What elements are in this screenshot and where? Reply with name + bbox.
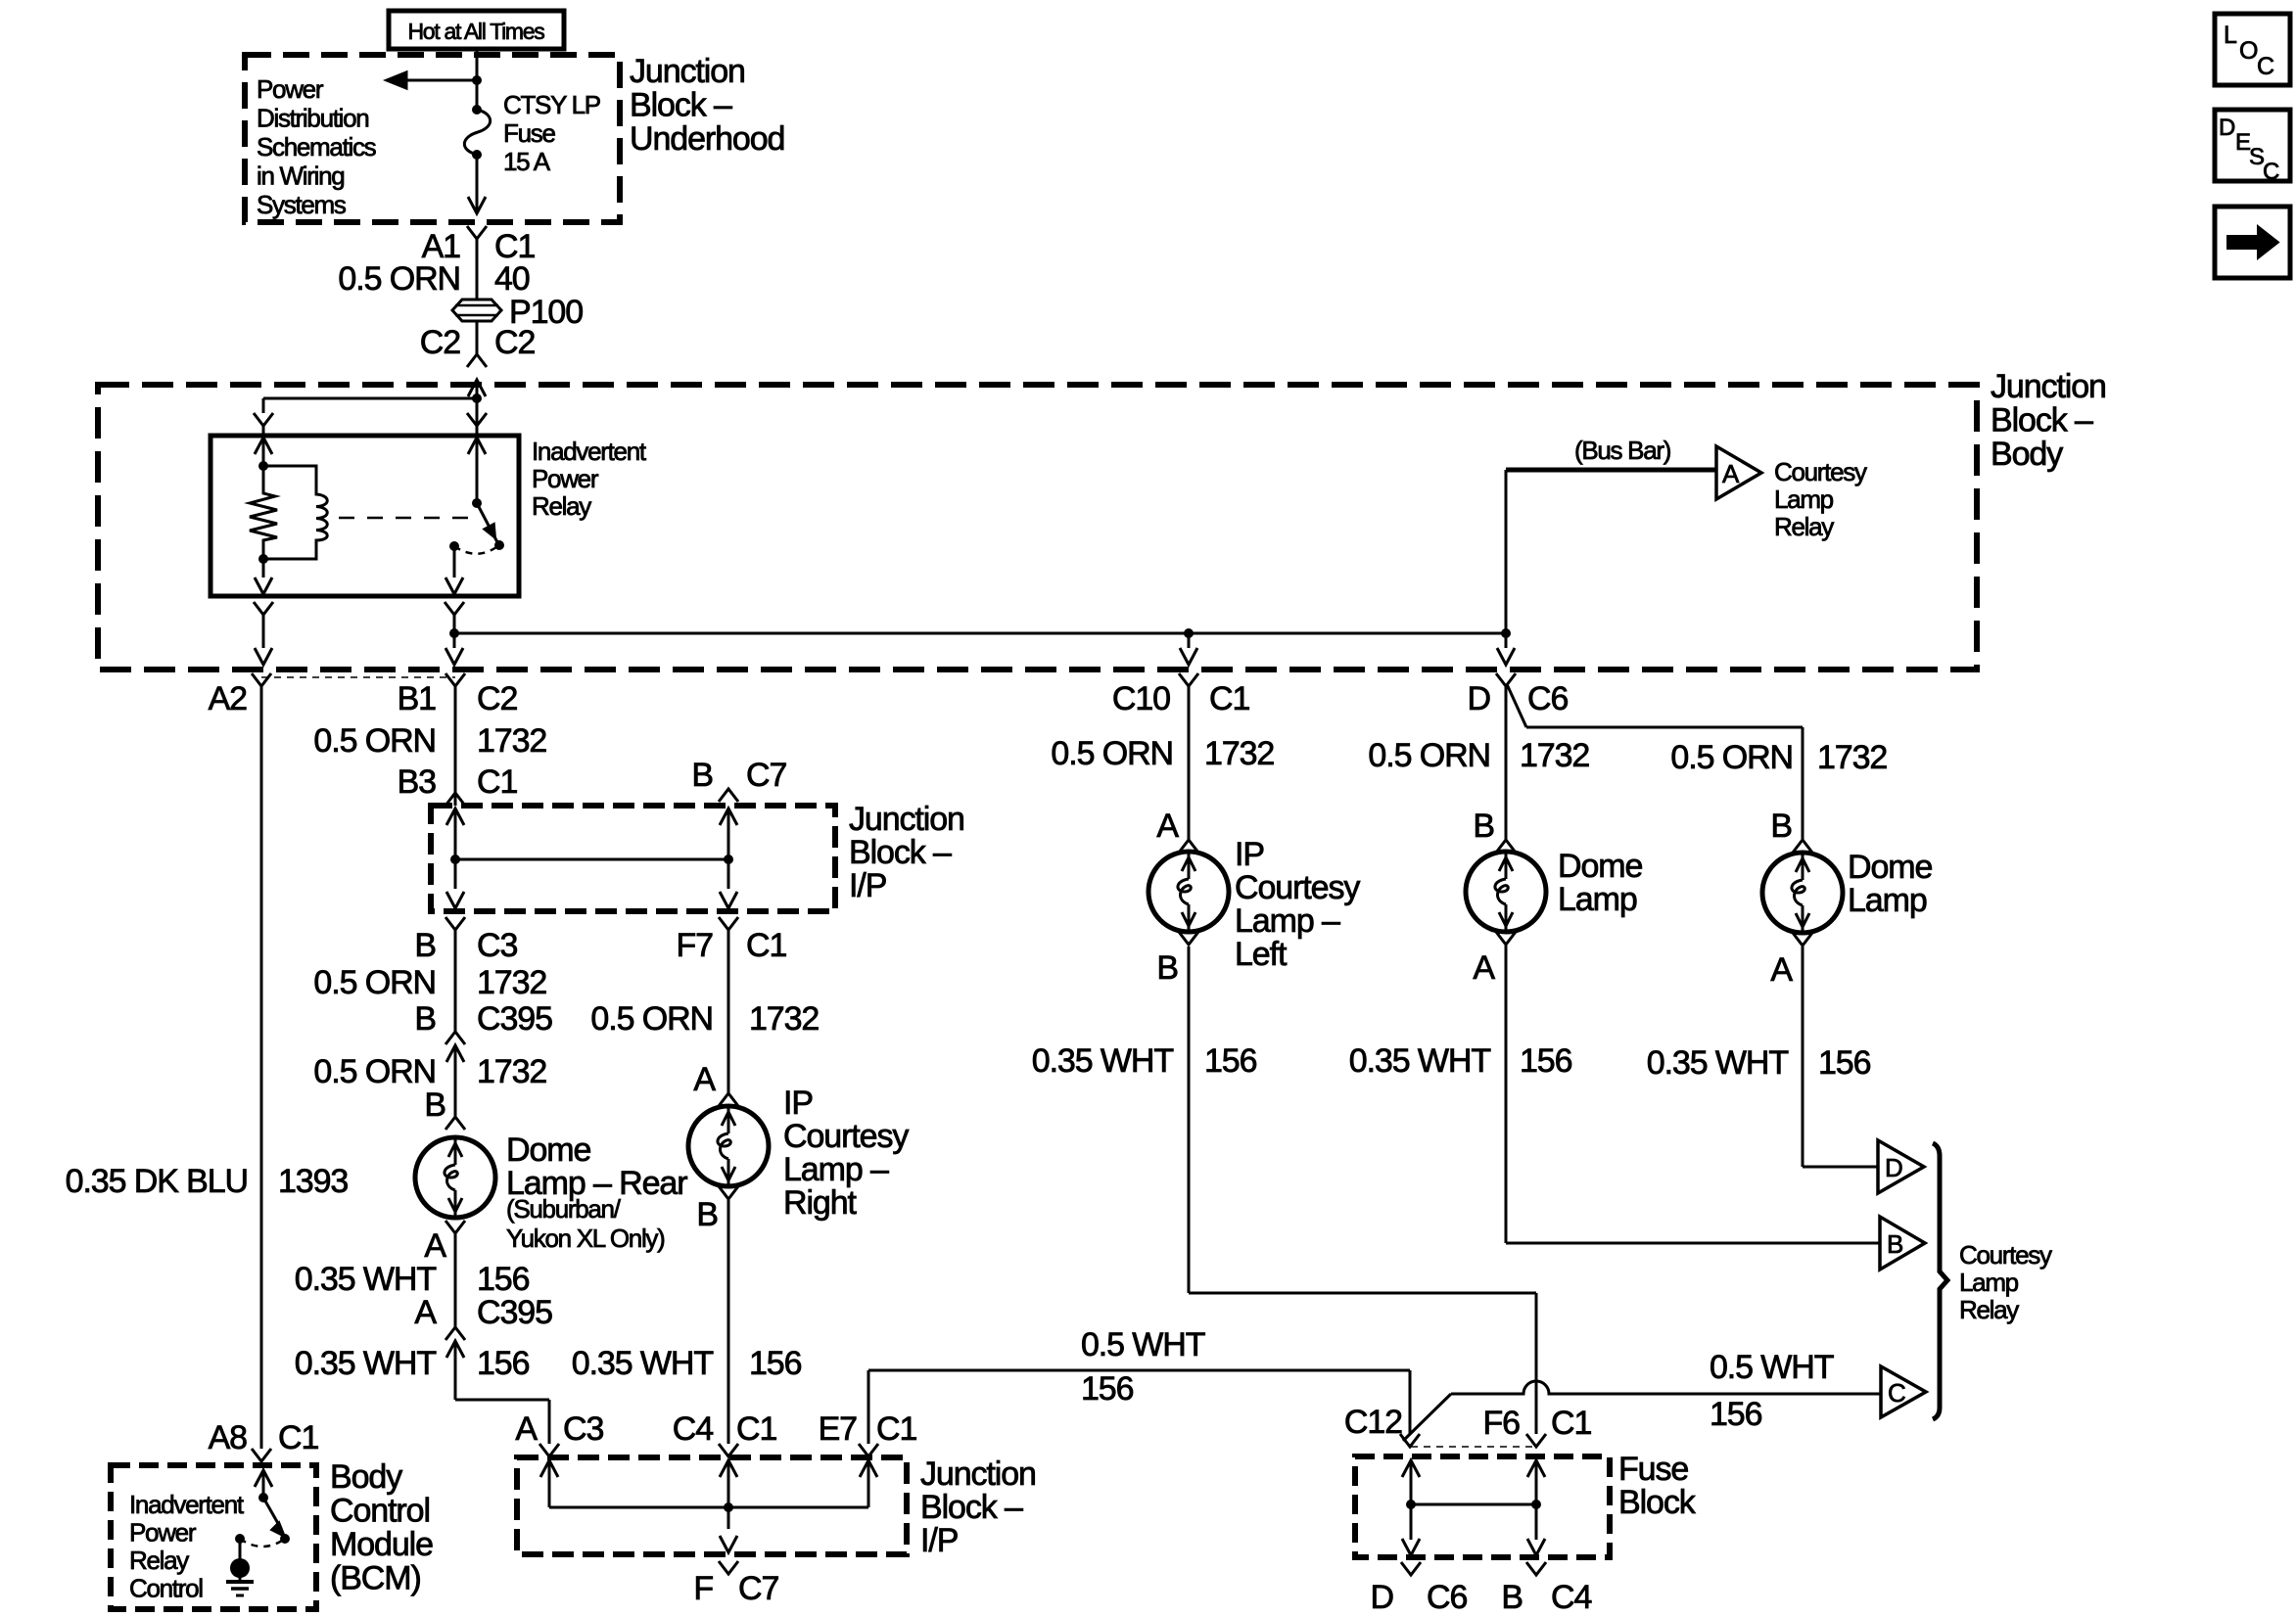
svg-text:Block: Block (1618, 1484, 1697, 1521)
wire E7 feed (867, 1370, 870, 1444)
svg-text:0.5 ORN: 0.5 ORN (1368, 737, 1490, 774)
lamp IP courtesy lamp right (688, 1106, 769, 1186)
svg-text:Lamp: Lamp (1959, 1268, 2019, 1297)
icon box LOC (2215, 14, 2290, 85)
svg-text:Dome: Dome (506, 1132, 590, 1169)
relay coil (263, 466, 327, 559)
wire A1 to P100 (476, 239, 479, 300)
svg-text:Underhood: Underhood (630, 120, 784, 158)
junction block I/P upper dashed box (431, 806, 835, 911)
svg-text:Junction: Junction (920, 1455, 1036, 1493)
svg-text:0.5 WHT: 0.5 WHT (1081, 1326, 1205, 1363)
wire A2 to BCM (260, 686, 263, 1449)
svg-text:0.5 ORN: 0.5 ORN (313, 722, 436, 760)
svg-text:Block –: Block – (920, 1489, 1023, 1526)
svg-text:Lamp: Lamp (1558, 881, 1637, 918)
svg-text:C6: C6 (1527, 680, 1568, 717)
svg-text:Lamp –: Lamp – (1235, 902, 1340, 940)
connector right dome lamp pin B (1793, 840, 1812, 853)
wire IP block bridge (455, 858, 728, 861)
svg-text:B3: B3 (398, 763, 437, 801)
svg-text:B: B (424, 1086, 445, 1124)
svg-text:0.5 ORN: 0.5 ORN (1051, 735, 1173, 772)
svg-text:C395: C395 (477, 1000, 552, 1038)
svg-text:I/P: I/P (920, 1522, 958, 1559)
svg-text:B: B (696, 1196, 718, 1233)
node lamp feed bus left (449, 628, 459, 638)
svg-text:156: 156 (1520, 1042, 1572, 1080)
wire B/C3 down (454, 930, 457, 1032)
wire F7/C1 down (727, 930, 730, 1093)
relay resistor (250, 466, 277, 559)
connector A1/C1 (467, 226, 487, 239)
svg-text:C: C (2257, 53, 2274, 80)
svg-text:Courtesy: Courtesy (783, 1118, 909, 1155)
svg-text:Junction: Junction (849, 801, 964, 838)
lamp dome lamp middle (1466, 852, 1546, 932)
connector E7/C1 (859, 1444, 878, 1456)
wire C395 to dome lamp rear (454, 1045, 457, 1117)
svg-text:A: A (1473, 949, 1495, 987)
connector C2 pin B1 (445, 673, 465, 686)
svg-text:156: 156 (477, 1261, 530, 1298)
svg-text:D: D (1468, 680, 1490, 717)
inline connector C395 lower (445, 1327, 465, 1340)
svg-text:Courtesy: Courtesy (1235, 869, 1360, 906)
lamp dome lamp right (1762, 853, 1843, 933)
svg-text:D: D (1371, 1579, 1393, 1616)
wire 0.5 WHT 156 to fuse block C12 (868, 1369, 1410, 1372)
svg-text:C3: C3 (563, 1410, 603, 1448)
svg-text:A2: A2 (209, 680, 248, 717)
svg-text:C: C (2263, 159, 2279, 185)
connector C2 pin A2 (252, 673, 271, 686)
svg-text:Fuse: Fuse (503, 118, 555, 148)
node feed junction (472, 75, 482, 85)
connector relay switch pin bottom (445, 602, 464, 615)
relay switch blade (477, 503, 497, 542)
wire lower IP bus (549, 1506, 868, 1509)
lamp feed bus (454, 632, 1506, 635)
svg-text:1732: 1732 (1204, 735, 1274, 772)
node C10 tap (1184, 628, 1194, 638)
svg-text:1732: 1732 (477, 964, 546, 1001)
svg-text:IP: IP (783, 1085, 813, 1122)
svg-text:Right: Right (783, 1184, 858, 1222)
connector C6 pin D (1496, 673, 1516, 686)
connector B/C4 fuse block (1526, 1562, 1546, 1575)
connector F/C7 (719, 1561, 738, 1574)
svg-text:Body: Body (1991, 436, 2063, 473)
svg-text:C1: C1 (1551, 1405, 1591, 1442)
wire switch pin down (453, 615, 456, 648)
node lower IP bus tap (724, 1502, 733, 1512)
svg-text:C395: C395 (477, 1294, 552, 1331)
svg-text:Body: Body (330, 1458, 402, 1496)
junction block underhood dashed box (245, 55, 620, 222)
svg-text:CTSY LP: CTSY LP (503, 90, 600, 119)
wire C6 branch to right dome lamp (1507, 684, 1526, 727)
connector C12 (1400, 1434, 1420, 1447)
svg-text:Block –: Block – (849, 834, 952, 871)
connector relay coil pin top (254, 413, 273, 426)
svg-text:F7: F7 (677, 927, 714, 964)
connector IP courtesy lamp right pin B (719, 1186, 738, 1199)
svg-text:Block –: Block – (1991, 402, 2093, 439)
svg-text:0.5 ORN: 0.5 ORN (313, 964, 436, 1001)
connector dome lamp pin B (1496, 840, 1516, 853)
svg-text:A: A (693, 1061, 716, 1098)
svg-text:(Suburban/: (Suburban/ (506, 1194, 622, 1224)
svg-text:C1: C1 (746, 927, 786, 964)
fuse CTSY LP 15A (472, 105, 482, 115)
svg-text:Power: Power (257, 74, 324, 104)
svg-text:0.5 ORN: 0.5 ORN (1670, 739, 1793, 776)
fuse block left leg (1402, 1460, 1420, 1477)
svg-text:B: B (414, 1000, 436, 1038)
wire lower IP left leg (540, 1460, 558, 1477)
svg-text:0.35 WHT: 0.35 WHT (1349, 1042, 1491, 1080)
svg-text:Inadvertent: Inadvertent (129, 1490, 245, 1519)
svg-text:15 A: 15 A (503, 147, 551, 176)
svg-text:C3: C3 (477, 927, 517, 964)
svg-text:C6: C6 (1427, 1579, 1467, 1616)
svg-text:0.5 WHT: 0.5 WHT (1710, 1349, 1834, 1386)
svg-text:Lamp: Lamp (1848, 882, 1927, 919)
svg-text:Power: Power (532, 464, 599, 493)
svg-text:0.5 ORN: 0.5 ORN (338, 260, 460, 298)
node bus bar tap (1501, 628, 1511, 638)
relay coil pin (255, 438, 272, 454)
svg-text:Relay: Relay (1959, 1295, 2019, 1324)
svg-text:Courtesy: Courtesy (1959, 1240, 2052, 1270)
svg-text:C12: C12 (1344, 1404, 1402, 1441)
ground (230, 1558, 250, 1578)
svg-text:Block –: Block – (630, 87, 732, 124)
svg-text:Relay: Relay (129, 1546, 189, 1575)
lamp dome lamp rear (415, 1137, 495, 1218)
svg-text:B: B (1156, 949, 1178, 987)
connector dome lamp rear pin A (445, 1221, 465, 1233)
svg-text:156: 156 (1818, 1044, 1871, 1082)
svg-text:Junction: Junction (630, 53, 745, 90)
wire bus to C10 pin (1188, 633, 1191, 648)
wire IP courtesy lamp left pin B to fuse block F6 (1188, 947, 1191, 1293)
svg-text:1732: 1732 (1520, 737, 1589, 774)
svg-text:C1: C1 (1209, 680, 1249, 717)
svg-text:Yukon XL Only): Yukon XL Only) (506, 1224, 665, 1253)
connector group dashed tie C12-F6 (1411, 1446, 1536, 1448)
connector dome lamp rear pin B (445, 1117, 465, 1130)
relay switch common (468, 438, 486, 454)
connector relay coil pin bottom (254, 602, 273, 615)
svg-text:1732: 1732 (1817, 739, 1887, 776)
svg-text:Module: Module (330, 1526, 433, 1563)
connector C2/C2 (467, 354, 487, 367)
wire C10 to IP courtesy lamp left (1188, 686, 1191, 840)
wire dome lamp rear to C395 (454, 1233, 457, 1327)
wire lamp right to C4/C1 (727, 1200, 730, 1444)
svg-text:C2: C2 (477, 680, 517, 717)
svg-text:Distribution: Distribution (257, 104, 368, 133)
svg-text:IP: IP (1235, 836, 1264, 873)
svg-text:156: 156 (477, 1345, 530, 1382)
svg-text:(BCM): (BCM) (330, 1560, 421, 1597)
power feed box 'Hot at All Times' (389, 11, 564, 49)
svg-text:1732: 1732 (477, 1053, 546, 1090)
svg-text:Left: Left (1235, 936, 1288, 973)
svg-text:40: 40 (494, 260, 530, 298)
svg-text:Courtesy: Courtesy (1774, 457, 1867, 486)
wire bus to C2 pin (445, 648, 463, 665)
svg-text:A8: A8 (209, 1419, 248, 1456)
svg-text:0.5 ORN: 0.5 ORN (313, 1053, 436, 1090)
svg-text:C4: C4 (1551, 1579, 1591, 1616)
svg-text:0.35 DK BLU: 0.35 DK BLU (66, 1163, 248, 1200)
svg-text:0.35 WHT: 0.35 WHT (295, 1345, 437, 1382)
node relay feed (472, 393, 482, 403)
svg-text:A: A (424, 1227, 446, 1265)
svg-text:I/P: I/P (849, 867, 886, 904)
svg-text:C10: C10 (1112, 680, 1170, 717)
svg-text:F: F (693, 1570, 713, 1607)
svg-text:Power: Power (129, 1518, 197, 1548)
connector C4/C1 (719, 1444, 738, 1456)
triangle connector B courtesy lamp relay (1880, 1217, 1925, 1270)
svg-text:E: E (2235, 129, 2250, 156)
inline connector C395 upper (445, 1032, 465, 1044)
wire from Hot at All Times to fuse (476, 49, 479, 110)
svg-text:E7: E7 (819, 1410, 858, 1448)
svg-text:S: S (2249, 144, 2264, 170)
svg-text:Junction: Junction (1991, 368, 2106, 405)
svg-text:0.35 WHT: 0.35 WHT (1647, 1044, 1789, 1082)
relay mechanical link dashed (339, 517, 472, 520)
svg-text:C1: C1 (477, 763, 517, 801)
brace courtesy lamp relay group (1933, 1143, 1947, 1419)
wire C2 into body block (468, 380, 486, 396)
body control module dashed box (111, 1465, 316, 1609)
inline connector P100 (452, 300, 501, 321)
svg-text:B: B (414, 927, 436, 964)
svg-text:156: 156 (1081, 1370, 1134, 1408)
triangle connector A courtesy lamp relay (1716, 446, 1761, 499)
relay switch contact (449, 541, 459, 551)
svg-text:B: B (691, 757, 713, 794)
svg-text:156: 156 (1710, 1396, 1762, 1433)
triangle connector C courtesy lamp relay (1881, 1366, 1926, 1417)
svg-text:Schematics: Schematics (257, 132, 377, 162)
svg-text:1732: 1732 (477, 722, 546, 760)
wire C395 to junction block I/P pin A/C3 (454, 1341, 457, 1400)
svg-text:0.35 WHT: 0.35 WHT (295, 1261, 437, 1298)
svg-text:C4: C4 (673, 1410, 713, 1448)
wire to relay coil side (263, 397, 477, 400)
connector group dashed tie A2-B1 (261, 676, 455, 678)
svg-text:in Wiring: in Wiring (257, 162, 344, 191)
svg-text:Control: Control (129, 1574, 203, 1603)
svg-text:C1: C1 (876, 1410, 916, 1448)
svg-text:C7: C7 (746, 757, 786, 794)
connector IP courtesy lamp left pin B (1179, 932, 1198, 945)
wire left leg exit (446, 892, 464, 908)
relay coil return (262, 559, 265, 577)
svg-text:B: B (1887, 1229, 1902, 1259)
wire C12 branch to relay C (1403, 1394, 1451, 1441)
svg-text:Inadvertent: Inadvertent (532, 437, 647, 466)
connector dome lamp right pin A (1793, 933, 1812, 946)
svg-text:C7: C7 (738, 1570, 778, 1607)
wire lower IP right leg (860, 1460, 877, 1477)
svg-text:A: A (515, 1410, 538, 1448)
fuse block dashed box (1355, 1456, 1610, 1557)
wire IP block left leg (446, 808, 464, 825)
svg-text:156: 156 (749, 1345, 802, 1382)
svg-text:Relay: Relay (1774, 512, 1834, 541)
wire lower IP middle leg (720, 1460, 737, 1477)
svg-text:C: C (1888, 1378, 1905, 1408)
svg-text:A: A (414, 1294, 437, 1331)
svg-text:O: O (2239, 37, 2258, 65)
BCM driver switch common (255, 1470, 272, 1487)
svg-text:B: B (1501, 1579, 1523, 1616)
inadvertent power relay box (211, 436, 519, 596)
svg-text:0.35 WHT: 0.35 WHT (572, 1345, 714, 1382)
svg-text:0.5 ORN: 0.5 ORN (590, 1000, 713, 1038)
wire coil pin to A2 (262, 615, 265, 648)
svg-text:B: B (1770, 808, 1792, 845)
BCM driver switch blade (263, 1498, 280, 1527)
connector relay switch pin top (467, 413, 487, 426)
wire P100 to C2 connector (476, 321, 479, 354)
fuse block right leg (1527, 1460, 1545, 1477)
connector F7/C1 (719, 917, 738, 930)
svg-text:(Bus Bar): (Bus Bar) (1574, 436, 1671, 465)
connector F6/C1 (1526, 1434, 1546, 1447)
svg-text:A: A (1722, 459, 1740, 488)
BCM switch contact (235, 1534, 245, 1544)
svg-text:1393: 1393 (278, 1163, 348, 1200)
connector C1 pin C10 (1179, 673, 1198, 686)
ground lead (239, 1539, 242, 1562)
wire IP block right leg (720, 808, 737, 825)
svg-text:D: D (1885, 1153, 1902, 1182)
svg-text:Lamp: Lamp (1774, 485, 1834, 514)
fuse block bus (1411, 1503, 1536, 1506)
svg-text:C2: C2 (494, 324, 535, 361)
wire fuse to A1 connector (476, 155, 479, 212)
svg-text:Dome: Dome (1848, 849, 1932, 886)
svg-text:Fuse: Fuse (1618, 1451, 1688, 1488)
bus bar to courtesy lamp relay A (1506, 468, 1716, 473)
connector D/C6 fuse block (1401, 1562, 1421, 1575)
junction block body dashed box (98, 385, 1977, 670)
wire dome lamp right to relay D (1802, 947, 1804, 1167)
svg-text:Systems: Systems (257, 190, 347, 219)
svg-text:B1: B1 (398, 680, 437, 717)
connector A/C3 (539, 1444, 559, 1456)
connector dome lamp middle pin A (1496, 932, 1516, 945)
connector IP courtesy lamp left pin A (1179, 840, 1198, 853)
svg-text:1732: 1732 (749, 1000, 819, 1038)
svg-text:A: A (1156, 808, 1179, 845)
svg-text:156: 156 (1204, 1042, 1257, 1080)
svg-text:F6: F6 (1483, 1405, 1521, 1442)
icon box forward arrow (2215, 207, 2290, 278)
connector IP courtesy lamp right pin A (719, 1093, 738, 1106)
svg-text:L: L (2224, 22, 2237, 49)
wire dome lamp middle to relay B (1505, 946, 1508, 1243)
svg-text:Dome: Dome (1558, 848, 1642, 885)
triangle connector D courtesy lamp relay (1878, 1140, 1924, 1193)
svg-text:A: A (1770, 951, 1793, 989)
icon box DESC (2215, 110, 2290, 181)
svg-text:Control: Control (330, 1493, 430, 1530)
connector A8/C1 (252, 1449, 271, 1461)
connector B/C7 stub (719, 789, 738, 802)
connector B/C3 (445, 917, 465, 930)
wire B1 to B3 (454, 686, 457, 806)
svg-text:Relay: Relay (532, 491, 591, 521)
svg-text:D: D (2219, 115, 2235, 141)
svg-text:Lamp –: Lamp – (783, 1151, 889, 1188)
wire right leg exit (720, 892, 737, 908)
svg-text:C1: C1 (278, 1419, 318, 1456)
svg-text:B: B (1473, 808, 1494, 845)
junction block I/P lower dashed box (517, 1457, 907, 1554)
svg-text:C1: C1 (736, 1410, 776, 1448)
svg-text:C2: C2 (420, 324, 460, 361)
connector B3/C1 into IP junction (445, 793, 465, 806)
lamp IP courtesy lamp left (1148, 852, 1229, 932)
wire arrow to power distribution schematics (403, 79, 477, 82)
svg-text:0.35 WHT: 0.35 WHT (1032, 1042, 1174, 1080)
wire bus-bar vertical (1505, 470, 1508, 633)
svg-text:Hot at All Times: Hot at All Times (408, 19, 545, 44)
wire D/C6 to dome lamp (1505, 686, 1508, 840)
